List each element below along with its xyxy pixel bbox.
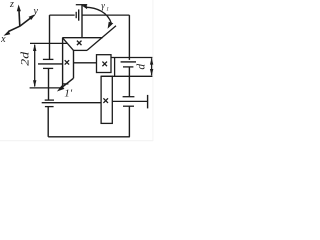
- svg-text:2d: 2d: [18, 51, 32, 66]
- svg-text:z: z: [9, 0, 14, 10]
- svg-text:d: d: [136, 64, 148, 70]
- svg-text:y: y: [32, 6, 38, 17]
- svg-text:1: 1: [106, 6, 109, 12]
- svg-text:x: x: [0, 34, 6, 45]
- svg-text:1′: 1′: [64, 88, 73, 100]
- svg-text:γ: γ: [101, 0, 105, 10]
